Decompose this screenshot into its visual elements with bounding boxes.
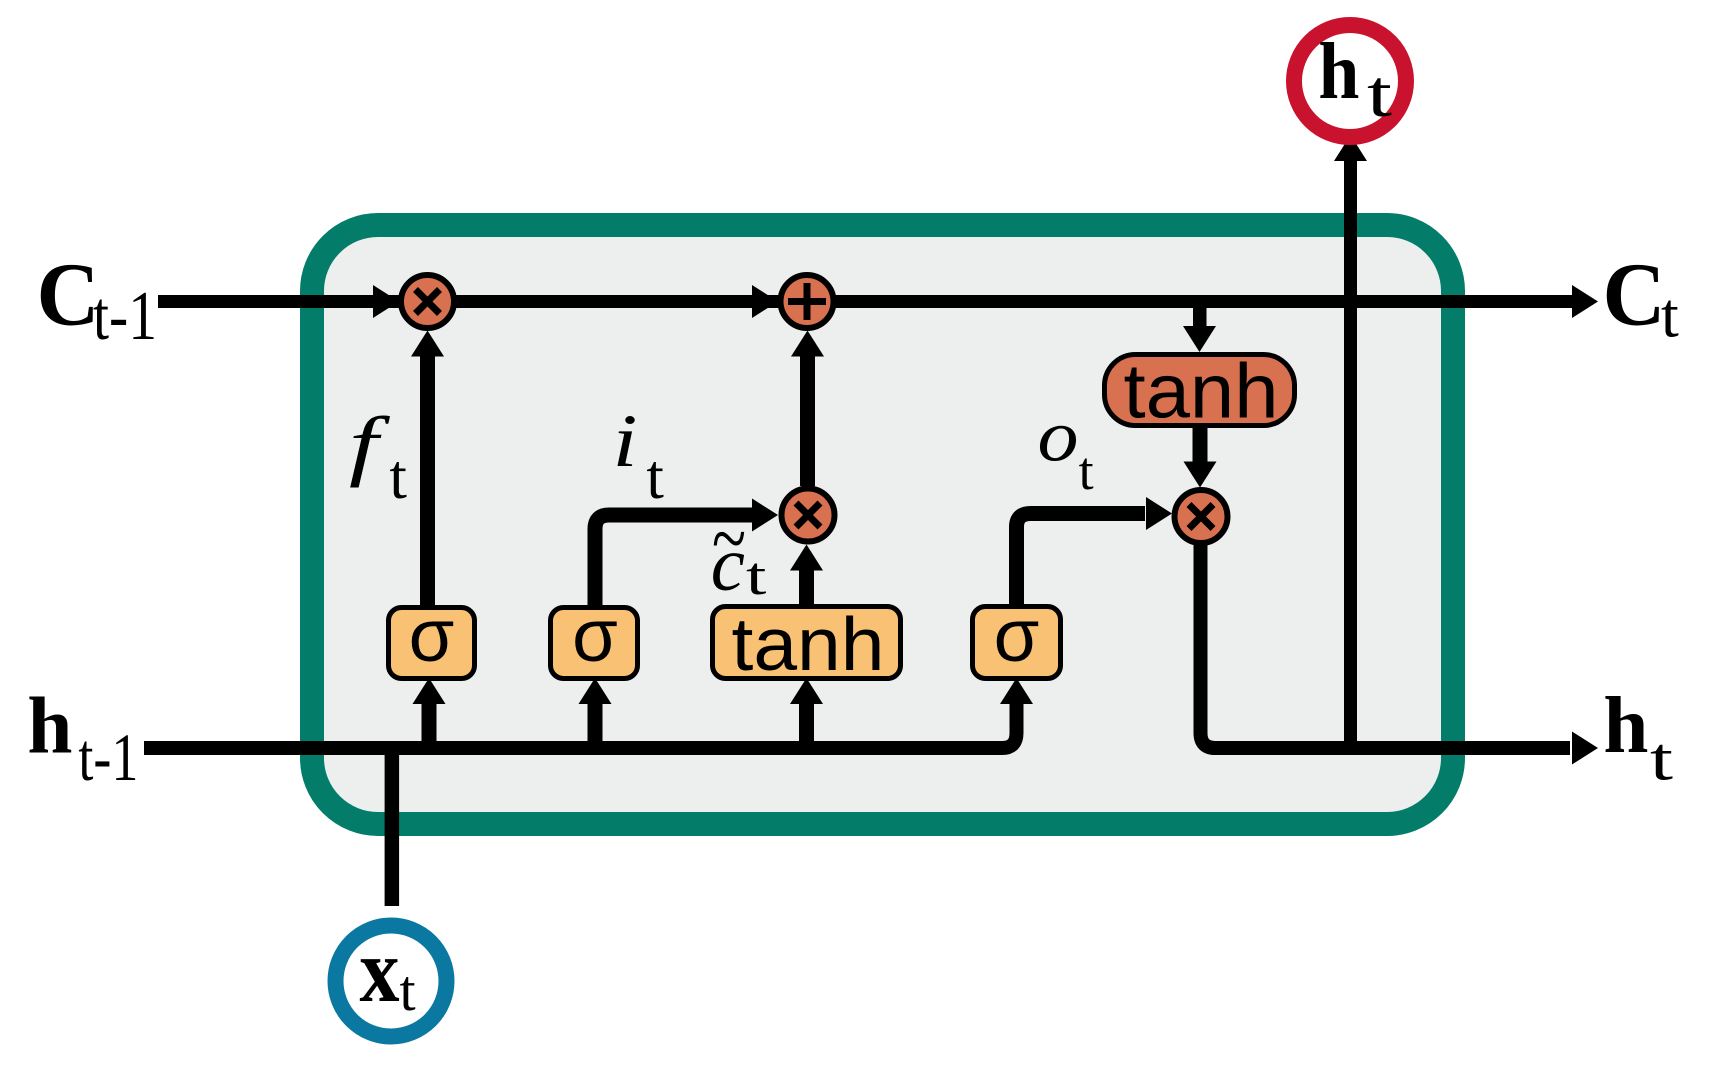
- svg-text:t-1: t-1: [78, 719, 138, 795]
- svg-text:σ: σ: [409, 594, 455, 677]
- svg-text:h: h: [27, 681, 72, 771]
- svg-text:t: t: [1079, 441, 1094, 501]
- svg-text:t: t: [1650, 727, 1673, 794]
- svg-text:t-1: t-1: [93, 278, 157, 355]
- svg-text:h: h: [1603, 680, 1648, 770]
- svg-text:C: C: [1603, 246, 1666, 345]
- svg-text:t: t: [400, 958, 416, 1023]
- svg-text:t: t: [1367, 57, 1393, 131]
- svg-text:o: o: [1038, 396, 1079, 477]
- svg-text:i: i: [613, 400, 638, 483]
- svg-text:x: x: [360, 920, 400, 1021]
- svg-text:tanh: tanh: [732, 602, 885, 686]
- svg-text:t: t: [746, 546, 766, 606]
- svg-text:~: ~: [712, 492, 746, 583]
- svg-text:t: t: [389, 442, 407, 512]
- svg-text:h: h: [1318, 28, 1359, 116]
- svg-text:t: t: [646, 442, 664, 512]
- svg-text:t: t: [1661, 280, 1679, 351]
- svg-text:C: C: [37, 246, 100, 345]
- svg-text:σ: σ: [572, 594, 618, 677]
- svg-text:tanh: tanh: [1124, 349, 1279, 435]
- svg-text:σ: σ: [994, 594, 1040, 677]
